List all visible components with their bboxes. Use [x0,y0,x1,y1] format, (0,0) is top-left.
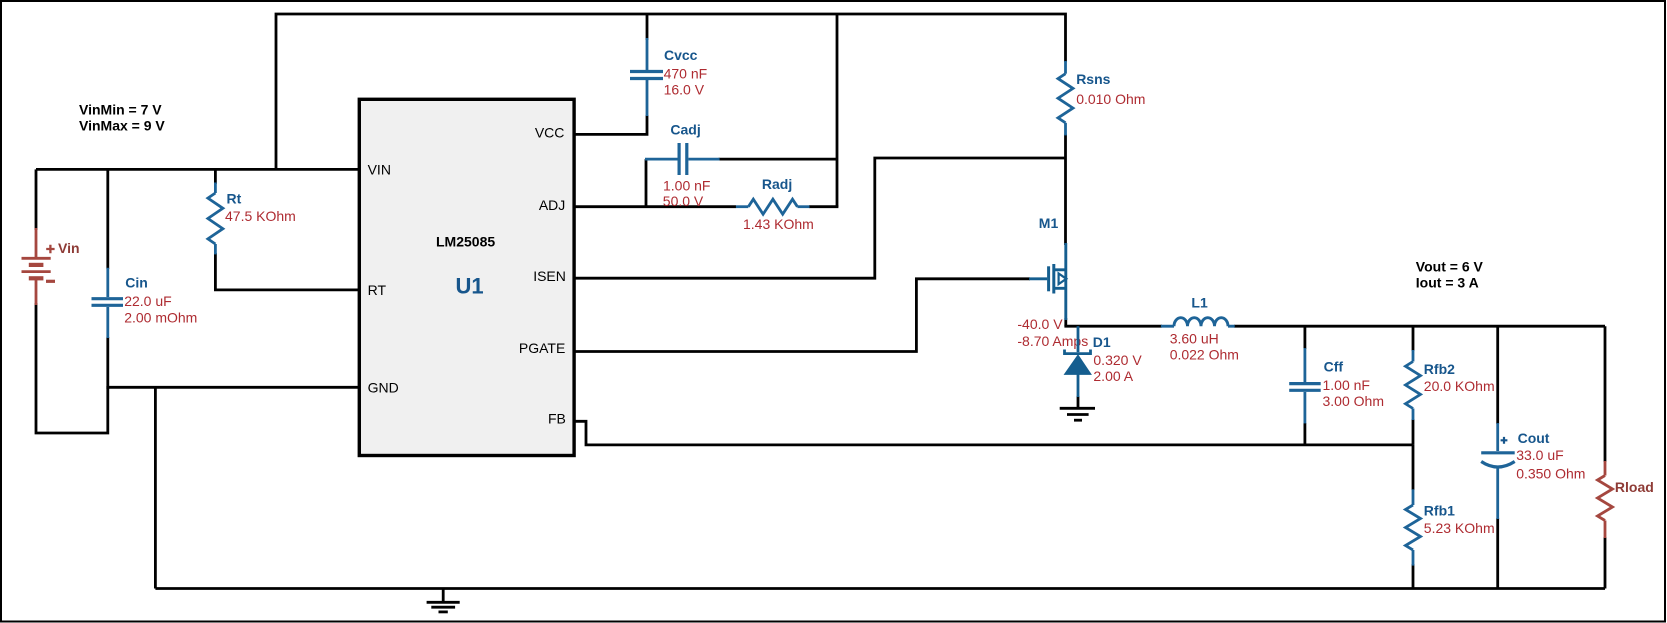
svg-text:47.5 KOhm: 47.5 KOhm [225,208,296,224]
svg-text:1.00 nF: 1.00 nF [663,178,710,194]
svg-text:33.0 uF: 33.0 uF [1516,447,1563,463]
capacitor Cadj [645,143,720,175]
battery plus sign [46,245,54,253]
wire ADJ line left [574,205,736,208]
svg-text:VinMin = 7 V: VinMin = 7 V [79,102,162,118]
resistor Rload [1598,461,1613,538]
svg-text:Vout = 6 V: Vout = 6 V [1416,259,1484,275]
wire output line left of L1 [1064,325,1162,328]
svg-text:GND: GND [368,379,399,395]
wire Cff column bottom [1304,423,1307,445]
svg-text:ISEN: ISEN [533,268,566,284]
svg-text:RT: RT [368,282,387,298]
transistor M1 PMOS [1029,243,1066,320]
svg-text:16.0 V: 16.0 V [664,82,705,98]
svg-text:Radj: Radj [762,176,792,192]
svg-text:LM25085: LM25085 [436,234,495,250]
svg-text:Iout = 3 A: Iout = 3 A [1416,275,1479,291]
svg-text:1.43 KOhm: 1.43 KOhm [743,216,814,232]
svg-text:2.00 A: 2.00 A [1093,368,1133,384]
svg-text:FB: FB [548,410,566,426]
ground symbol bottom rail [427,589,460,612]
svg-text:3.00 Ohm: 3.00 Ohm [1323,393,1384,409]
capacitor Cout polarized [1481,423,1515,519]
wire VCC [574,115,647,134]
svg-text:0.022 Ohm: 0.022 Ohm [1170,347,1239,363]
wire Cin column lower [106,337,109,389]
svg-text:0.320 V: 0.320 V [1093,352,1142,368]
resistor Rfb2 [1406,350,1421,420]
wire Rfb1 column bottom [1412,564,1415,589]
svg-text:Cvcc: Cvcc [664,47,698,63]
wire M1 drain to output node [1064,318,1067,326]
wire VIN-to-ADJ vertical [836,14,839,207]
Cout plus sign [1501,437,1508,444]
svg-text:PGATE: PGATE [519,340,565,356]
wire Rt column top [214,169,217,184]
resistor Rt [208,183,223,255]
battery V1 Vin symbol [22,228,51,305]
svg-text:Cadj: Cadj [670,122,700,138]
svg-text:VCC: VCC [535,125,565,141]
transistor M1 arrow [1059,274,1067,285]
ground under D1 [1060,408,1095,420]
wire bottom rail [155,587,1605,590]
svg-text:0.010 Ohm: 0.010 Ohm [1076,91,1145,107]
svg-text:Rfb2: Rfb2 [1424,361,1455,377]
svg-text:Rfb1: Rfb1 [1424,503,1455,519]
svg-text:22.0 uF: 22.0 uF [124,293,171,309]
wire Cin column upper [106,169,109,269]
wire Cout column bottom [1496,518,1499,589]
IC U1 box [359,99,574,455]
wire Cff column top [1304,326,1307,349]
wire Rt column bottom / RT line [215,253,359,290]
diode D1 [1065,326,1091,397]
wire Rfb2 column bottom [1412,419,1415,445]
svg-text:20.0 KOhm: 20.0 KOhm [1424,378,1495,394]
svg-text:Vin: Vin [58,240,80,256]
svg-text:U1: U1 [456,274,484,299]
svg-text:1.00 nF: 1.00 nF [1323,377,1370,393]
resistor Rsns [1058,61,1073,135]
svg-text:50.0 V: 50.0 V [663,193,704,209]
svg-text:2.00 mOhm: 2.00 mOhm [124,310,197,326]
svg-text:L1: L1 [1191,294,1208,310]
svg-text:D1: D1 [1093,334,1111,350]
wire Cadj right segment [719,158,837,161]
wire battery column bottom [36,303,108,433]
battery minus sign [46,280,55,283]
diode D1 triangle [1065,355,1092,374]
capacitor Cvcc [630,38,663,116]
svg-text:ADJ: ADJ [539,197,565,213]
wire Rload column top [1604,326,1607,462]
wire ISEN [574,158,1066,278]
wire Rload column bottom [1604,537,1607,589]
svg-text:0.350 Ohm: 0.350 Ohm [1516,466,1585,482]
inductor L1 [1161,318,1235,327]
wire Cadj left vertical [645,159,648,207]
svg-text:Cout: Cout [1518,430,1550,446]
wire ADJ line right [809,205,838,208]
svg-text:5.23 KOhm: 5.23 KOhm [1424,520,1495,536]
wire top VIN rail [276,14,1066,169]
capacitor Cff [1289,348,1321,423]
svg-text:-40.0 V: -40.0 V [1017,316,1063,332]
wire PGATE [574,279,1030,352]
svg-text:Rsns: Rsns [1076,71,1110,87]
svg-text:VIN: VIN [368,161,391,177]
wire D1 ground stub [1077,396,1080,408]
capacitor Cin [92,268,124,338]
svg-text:Rload: Rload [1615,479,1654,495]
svg-text:470 nF: 470 nF [664,66,708,82]
wire ground drop [154,387,157,588]
svg-text:3.60 uH: 3.60 uH [1170,330,1219,346]
wire Cvcc top stub [646,14,649,40]
svg-text:VinMax = 9 V: VinMax = 9 V [79,118,165,134]
svg-text:M1: M1 [1039,215,1059,231]
wire Cout column top [1496,326,1499,424]
svg-text:Cff: Cff [1324,359,1344,375]
wire GND line [108,386,359,389]
wire Rfb1 column top [1412,445,1415,490]
wire Rsns bottom to M1 source [1064,134,1067,245]
svg-text:Rt: Rt [227,191,242,207]
svg-text:Cin: Cin [125,275,148,291]
resistor Rfb1 [1406,489,1421,565]
wire battery column top [35,169,38,230]
wire VIN line [36,168,359,171]
resistor Radj [736,199,810,214]
wire Rfb2 column top [1412,326,1415,351]
wire output line right of L1 [1234,325,1605,328]
wire FB [574,421,1413,445]
